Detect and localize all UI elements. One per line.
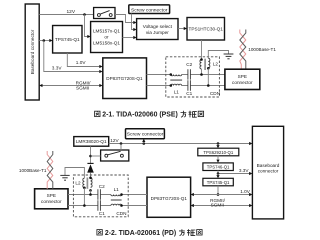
svg-text:C1: C1	[99, 211, 105, 216]
wire 12V line down to switch (PD)	[120, 144, 122, 151]
voltage select via jumper block	[137, 19, 178, 40]
node junction top rail (PD)	[89, 193, 92, 196]
svg-text:SGMII: SGMII	[76, 86, 89, 91]
svg-text:connector: connector	[258, 168, 279, 173]
node junction 1.0V (PD)	[217, 193, 220, 196]
svg-text:Screw connector: Screw connector	[127, 131, 164, 137]
svg-text:DP83TG720S-Q1: DP83TG720S-Q1	[106, 76, 143, 81]
boost converter U2 LM5157x-Q1 / LM5158x-Q1	[91, 22, 123, 53]
baseboard connector J1 (PSE)	[25, 4, 39, 100]
CJK glyph 图 (caption 1)	[95, 111, 100, 116]
svg-text:LMR38020-Q1: LMR38020-Q1	[76, 139, 107, 144]
wire voltage select to TPS1HTC30	[178, 27, 187, 30]
wire L2 left winding to ground (PD)	[65, 168, 84, 179]
wire 1.0V net (PD)	[191, 193, 253, 196]
wire baseboard to TPS745 input	[39, 39, 52, 42]
svg-text:12V: 12V	[110, 138, 119, 143]
svg-text:or: or	[104, 35, 109, 40]
buck converter U5 LMR38020-Q1	[74, 137, 109, 147]
wire switch to voltage select	[115, 15, 137, 25]
CJK glyph 框 (caption 2)	[187, 229, 195, 236]
node L2 left winding bottom (PD)	[83, 187, 86, 190]
node junction bottom rail (PD)	[83, 204, 86, 207]
dashed filter network box (PSE)	[166, 57, 220, 97]
capacitor C1 (PSE, bottom rail)	[188, 80, 191, 90]
node junction switch branch (PD)	[120, 142, 123, 145]
svg-text:L2: L2	[213, 62, 219, 67]
common-mode choke L1 (PSE)	[170, 73, 183, 87]
svg-text:LM5158x-Q1: LM5158x-Q1	[93, 41, 120, 46]
svg-text:TPS746-Q1: TPS746-Q1	[207, 165, 230, 170]
wire RGMII/SGMII bus (PD)	[191, 204, 253, 207]
wire MDI top rail (PD)	[68, 194, 147, 196]
LDO U7 TPS746-Q1	[203, 163, 233, 171]
1000Base-T1 twisted pair (PSE) dark strand	[240, 30, 246, 70]
CJK glyph 图 (caption 1, trailing)	[198, 111, 203, 116]
capacitor C1 (PD, bottom rail)	[98, 200, 101, 210]
wire L2 left winding to bottom rail (PD)	[83, 188, 85, 206]
svg-text:L1: L1	[174, 89, 180, 94]
svg-text:1000Base-T1: 1000Base-T1	[248, 47, 276, 52]
svg-text:1000Base-T1: 1000Base-T1	[19, 168, 47, 173]
wire MDI bottom rail (PD)	[68, 205, 147, 207]
svg-text:SPE: SPE	[47, 193, 56, 198]
node junction bottom rail (PSE)	[207, 84, 210, 87]
label RGMII/SGMII (PSE)	[76, 81, 92, 91]
svg-text:LM5157x-Q1: LM5157x-Q1	[93, 29, 120, 34]
wire MDI bottom rail (PSE)	[147, 85, 225, 87]
svg-text:L1: L1	[114, 187, 120, 192]
node L2 right winding bottom (PD)	[89, 189, 92, 192]
svg-text:2-1. TIDA-020060 (PSE): 2-1. TIDA-020060 (PSE)	[102, 112, 177, 119]
wire L2 left winding to top rail	[201, 69, 203, 75]
power coupling inductor L2 (PD)	[83, 178, 92, 189]
capacitor C2 (PSE, top rail)	[188, 69, 191, 79]
svg-text:TPS1HTC30-Q1: TPS1HTC30-Q1	[189, 27, 224, 32]
node junction 3.3V (PD)	[217, 172, 220, 175]
CJK glyph 图 (caption 2, trailing)	[197, 230, 202, 235]
svg-text:1.0V: 1.0V	[76, 60, 87, 65]
wire MDI top rail (PSE)	[147, 74, 225, 76]
node junction screw connector branch (PD)	[143, 142, 146, 145]
1000Base-T1 twisted pair (PD) red strand	[47, 151, 53, 189]
diode D1 (PD)	[87, 163, 94, 177]
CJK glyph 框 (caption 1)	[189, 111, 197, 118]
wire node to switch (PD)	[91, 155, 101, 157]
PHY U4 DP83TG720S-Q1 (PSE)	[103, 58, 147, 99]
wire 12V to screw connector (PD)	[142, 139, 145, 144]
capacitor C2 (PD, top rail)	[98, 189, 101, 199]
wire TPS745 to 1.0V net (PD)	[217, 186, 219, 195]
ground (PD)	[60, 175, 69, 180]
wire 1.0V net TPS745 to DP83	[67, 53, 102, 68]
wire 3.3V net to DP83	[44, 41, 103, 74]
switch S1 (PSE)	[94, 8, 115, 19]
common-mode choke L1 (PD)	[111, 193, 123, 207]
PHY U9 DP83TG720S-Q1 (PD)	[147, 177, 191, 217]
svg-text:DP83TG720S-Q1: DP83TG720S-Q1	[151, 196, 188, 201]
power coupling inductor L2 (PSE)	[200, 58, 210, 70]
svg-text:Voltage select: Voltage select	[143, 24, 173, 29]
svg-text:CDN: CDN	[116, 211, 126, 216]
wire RGMII/SGMII bus (PSE)	[39, 84, 102, 87]
switch S2 (PD)	[101, 150, 129, 161]
svg-text:TPS629210-Q1: TPS629210-Q1	[203, 150, 233, 155]
node junction top rail (PSE)	[200, 73, 203, 76]
screw connector (PSE)	[129, 5, 170, 14]
svg-text:connector: connector	[41, 199, 62, 204]
svg-text:connector: connector	[232, 80, 253, 85]
node L2 right winding top (PD)	[89, 177, 92, 180]
svg-text:C1: C1	[186, 91, 192, 96]
wire 12V to LM5157x input	[85, 15, 91, 39]
node L2 left winding top	[200, 58, 203, 61]
svg-text:3.3V: 3.3V	[52, 66, 63, 71]
wire LM5157x to voltage select	[123, 36, 137, 39]
wire 3.3V net (PD)	[218, 171, 252, 176]
SPE connector (PD)	[35, 189, 68, 209]
high-side switch U3 TPS1HTC30-Q1	[187, 18, 225, 41]
baseboard connector J2 (PD)	[252, 126, 283, 219]
screw connector (PD)	[126, 129, 165, 139]
wire 12V net (PD)	[109, 142, 253, 145]
node junction diode-switch (PD)	[89, 155, 92, 158]
svg-text:3.3V: 3.3V	[239, 168, 250, 173]
CJK glyph 方 (caption 1)	[181, 111, 187, 117]
node L2 right winding bottom	[207, 67, 210, 70]
svg-text:C2: C2	[186, 62, 192, 67]
wire LMR38020 input node (PD)	[90, 146, 92, 163]
svg-text:via Jumper: via Jumper	[146, 30, 169, 35]
1000Base-T1 twisted pair (PSE) red strand	[240, 30, 246, 70]
wire screw connector to voltage select	[132, 14, 137, 32]
svg-text:SPE: SPE	[238, 74, 247, 79]
wire TPS1HTC30 output to L2	[201, 40, 203, 60]
svg-text:TPS745-Q1: TPS745-Q1	[207, 180, 230, 185]
dashed filter network box (PD)	[73, 175, 128, 217]
LDO U8 TPS745-Q1 (PD)	[203, 178, 233, 186]
wire L2 right winding to top rail (PD)	[90, 190, 92, 194]
svg-text:12V: 12V	[67, 9, 76, 15]
label RGMII/SGMII (PD)	[210, 198, 226, 208]
svg-text:Baseboard connector: Baseboard connector	[30, 29, 35, 74]
wire L2 right winding to ground	[208, 51, 228, 59]
wire 12V net (PSE)	[39, 14, 93, 16]
svg-text:Baseboard: Baseboard	[257, 163, 280, 168]
wire 3.3V to TPS745 (PD)	[216, 174, 219, 179]
caption figure 2-1	[95, 111, 204, 119]
svg-text:L2: L2	[75, 180, 81, 185]
LDO U1 TPS745-Q1 (PSE)	[53, 26, 82, 54]
node junction 12V branch	[83, 13, 86, 16]
wire TPS629210 to TPS746	[216, 155, 219, 163]
svg-text:Screw connector: Screw connector	[131, 7, 168, 13]
node junction 3.3V branch	[43, 39, 46, 42]
ground (PSE)	[224, 54, 234, 59]
svg-text:SGMII: SGMII	[211, 203, 224, 208]
svg-text:1.0V: 1.0V	[240, 189, 251, 194]
buck converter U6 TPS629210-Q1	[198, 148, 239, 156]
CJK glyph 图 (caption 2)	[97, 230, 102, 235]
node junction TPS629210 branch (PD)	[217, 142, 220, 145]
svg-text:C2: C2	[99, 184, 105, 189]
svg-text:TPS745-Q1: TPS745-Q1	[55, 37, 80, 42]
svg-text:CDN: CDN	[210, 91, 220, 96]
wire L2 right winding to bottom rail	[207, 68, 209, 85]
svg-text:2-2. TIDA-020061 (PD): 2-2. TIDA-020061 (PD)	[105, 230, 176, 237]
wire 12V to TPS629210	[216, 144, 219, 149]
1000Base-T1 twisted pair (PD) dark strand	[47, 151, 53, 189]
CJK glyph 方 (caption 2)	[179, 229, 185, 235]
caption figure 2-2	[97, 229, 202, 237]
SPE connector (PSE)	[225, 69, 260, 89]
